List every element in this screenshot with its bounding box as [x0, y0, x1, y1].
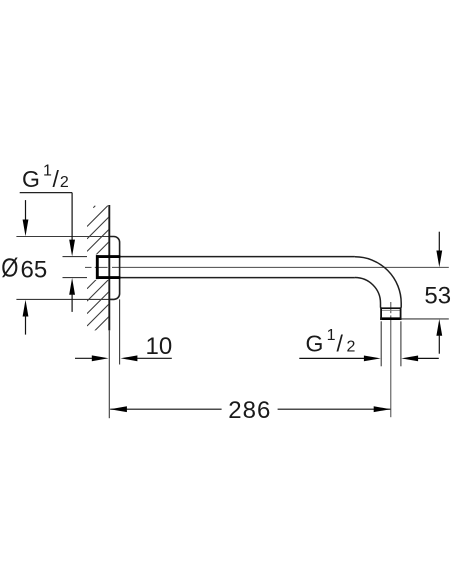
svg-text:1: 1: [43, 162, 52, 179]
svg-text:65: 65: [21, 256, 48, 283]
svg-text:/: /: [53, 166, 60, 192]
svg-text:10: 10: [146, 333, 173, 360]
svg-text:Ø: Ø: [1, 254, 18, 283]
svg-text:2: 2: [347, 339, 356, 356]
svg-text:286: 286: [228, 397, 271, 424]
svg-text:2: 2: [60, 174, 69, 191]
svg-text:/: /: [337, 331, 344, 357]
svg-text:53: 53: [424, 283, 451, 310]
svg-text:G: G: [22, 166, 40, 192]
svg-text:G: G: [306, 331, 324, 357]
svg-text:1: 1: [327, 327, 336, 344]
